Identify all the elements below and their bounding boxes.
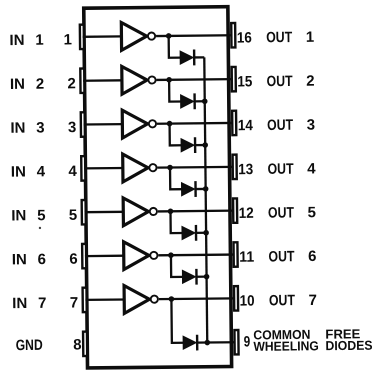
svg-text:1: 1: [35, 32, 44, 49]
wire: inverter U1D output to pin 13: [157, 166, 233, 169]
svg-text:4: 4: [68, 163, 77, 180]
svg-text:15: 15: [237, 73, 252, 90]
wire: output 2 to diode D2 anode: [169, 80, 181, 102]
svg-text:4: 4: [307, 160, 316, 177]
svg-text:OUT: OUT: [267, 117, 293, 134]
svg-text:5: 5: [308, 204, 317, 221]
pin 4 number: [68, 163, 77, 180]
label OUT 3: [267, 116, 315, 134]
svg-text:3: 3: [307, 116, 316, 133]
node: output 3 junction: [167, 121, 173, 127]
inverter U1F (channel 6): [124, 242, 149, 270]
pin 7: [83, 288, 87, 312]
wire: diode D1 cathode to common bus: [194, 56, 204, 58]
svg-text:7: 7: [308, 292, 317, 309]
diode D1: [180, 50, 194, 66]
inverter U1G (channel 7): [124, 285, 149, 313]
label COMMON FREE WHEELING DIODES: [253, 326, 373, 354]
svg-text:OUT: OUT: [268, 204, 294, 221]
inverter U1E output bubble: [150, 208, 157, 215]
inverter U1B output bubble: [148, 76, 155, 83]
pin 8 number: [73, 336, 82, 353]
wire: inverter U1E output to pin 12: [158, 209, 234, 212]
svg-text:14: 14: [238, 117, 254, 134]
wire: diode D3 cathode to common bus: [195, 144, 205, 146]
svg-text:2: 2: [67, 75, 76, 92]
wire: output 3 to diode D3 anode: [170, 123, 182, 145]
svg-text:6: 6: [308, 248, 317, 265]
svg-text:OUT: OUT: [269, 292, 295, 309]
pin 8: [83, 332, 87, 356]
diode D3: [181, 137, 195, 153]
svg-text:IN: IN: [12, 251, 27, 268]
pin 3: [81, 112, 85, 136]
inverter U1A (channel 1): [121, 22, 146, 50]
inverter U1F output bubble: [150, 252, 157, 259]
node: output 7 junction: [169, 296, 175, 302]
pin 1 number: [63, 31, 72, 48]
svg-text:DIODES: DIODES: [325, 338, 372, 353]
wire: output 1 to diode D1 anode: [169, 36, 181, 58]
wire: diode D7 cathode to common bus: [197, 341, 207, 343]
inverter U1D output bubble: [149, 164, 156, 171]
wire: pin 4 input to inverter U1D: [84, 167, 124, 170]
svg-text:1: 1: [306, 29, 315, 46]
svg-text:16: 16: [237, 29, 252, 46]
wire: pin 7 input to inverter U1G: [85, 298, 125, 301]
pin 16: [231, 23, 235, 47]
svg-text:OUT: OUT: [267, 73, 293, 90]
node: output 2 junction: [166, 77, 172, 83]
label IN 7: [12, 295, 46, 312]
wire: output 6 to diode D6 anode: [171, 255, 183, 277]
pin 11 number: [239, 249, 254, 266]
wire: inverter U1B output to pin 15: [157, 78, 233, 81]
node: common bus junction at D5: [203, 230, 209, 236]
pin 9: [234, 330, 238, 354]
label IN 4: [11, 163, 46, 180]
pin 6 number: [69, 251, 78, 268]
svg-text:12: 12: [239, 205, 254, 222]
pin 4: [81, 156, 85, 180]
wire: pin 6 input to inverter U1F: [85, 255, 125, 258]
label IN 5: [11, 207, 45, 224]
wire: diode D4 cathode to common bus: [196, 188, 206, 190]
label IN 3: [10, 119, 44, 136]
svg-text:OUT: OUT: [266, 29, 292, 46]
pin 10 number: [240, 293, 255, 310]
pin 2 number: [67, 75, 76, 92]
svg-text:6: 6: [38, 251, 47, 268]
pin 1: [80, 25, 84, 49]
label IN 2: [10, 76, 44, 93]
node: common bus junction at D3: [202, 142, 208, 148]
wire: output 4 to diode D4 anode: [170, 167, 182, 189]
diode D2: [181, 93, 195, 109]
svg-text:OUT: OUT: [268, 248, 294, 265]
svg-text:OUT: OUT: [267, 161, 293, 178]
label OUT 4: [267, 160, 316, 178]
svg-text:GND: GND: [16, 337, 43, 354]
label OUT 7: [269, 292, 317, 310]
wire: inverter U1C output to pin 14: [157, 122, 233, 125]
pin 3 number: [68, 119, 77, 136]
label OUT 6: [268, 248, 316, 266]
svg-text:IN: IN: [11, 164, 26, 181]
inverter U1G output bubble: [151, 296, 158, 303]
diode D6: [182, 269, 196, 285]
wire: inverter U1A output to pin 16: [156, 34, 232, 37]
pin 6: [82, 244, 86, 268]
svg-text:10: 10: [240, 293, 255, 310]
node: output 1 junction: [166, 33, 172, 39]
pin 7 number: [70, 294, 79, 311]
label IN 6: [12, 251, 46, 268]
wire: output 5 to diode D5 anode: [170, 211, 182, 233]
svg-text:IN: IN: [11, 207, 26, 224]
svg-text:IN: IN: [10, 120, 25, 137]
node: common bus junction at D2: [202, 98, 208, 104]
svg-text:5: 5: [69, 207, 78, 224]
pin 11: [234, 242, 238, 266]
inverter U1B (channel 2): [122, 66, 147, 94]
svg-text:WHEELING: WHEELING: [253, 338, 319, 354]
diode D7: [183, 335, 197, 351]
node: common bus junction at D4: [203, 186, 209, 192]
wire: inverter U1F output to pin 11: [158, 253, 234, 256]
svg-text:3: 3: [36, 119, 45, 136]
pin 5 number: [69, 207, 78, 224]
svg-text:5: 5: [37, 207, 46, 224]
node: output 6 junction: [168, 252, 174, 258]
svg-text:6: 6: [69, 251, 78, 268]
wire: common free-wheeling diode bus: [204, 57, 207, 342]
pin 12 number: [239, 205, 254, 222]
wire: common bus to pin 9: [207, 341, 235, 344]
pin 13: [233, 155, 237, 179]
svg-text:4: 4: [37, 163, 46, 180]
wire: pin 3 input to inverter U1C: [84, 123, 124, 126]
node: common bus junction at D7: [204, 340, 210, 346]
diode D4: [182, 181, 196, 197]
pin 14: [232, 111, 236, 135]
svg-text:7: 7: [70, 294, 79, 311]
inverter U1C (channel 3): [122, 110, 147, 138]
wire: pin 2 input to inverter U1B: [83, 79, 123, 82]
node: common bus junction at D6: [204, 274, 210, 280]
wire: inverter U1G output to pin 10: [159, 297, 235, 300]
pin 16 number: [237, 29, 252, 46]
pin 5: [82, 200, 86, 224]
wire: output 7 to diode D7 anode: [171, 299, 183, 343]
svg-text:IN: IN: [12, 295, 27, 312]
svg-text:2: 2: [36, 76, 45, 93]
wire: pin 1 input to inverter U1A: [83, 35, 123, 38]
node: output 4 junction: [167, 165, 173, 171]
wire: diode D6 cathode to common bus: [196, 275, 206, 277]
svg-text:13: 13: [238, 161, 253, 178]
pin 10: [234, 286, 238, 310]
wire: pin 5 input to inverter U1E: [84, 211, 124, 214]
wire: diode D2 cathode to common bus: [195, 100, 205, 102]
svg-text:3: 3: [68, 119, 77, 136]
svg-text:11: 11: [239, 249, 254, 266]
inverter U1C output bubble: [149, 120, 156, 127]
wire: diode D5 cathode to common bus: [196, 232, 206, 234]
svg-text:IN: IN: [9, 32, 24, 49]
diode D5: [182, 225, 196, 241]
svg-text:9: 9: [244, 333, 251, 350]
pin 13 number: [238, 161, 253, 178]
speck (scan artifact): [39, 227, 41, 229]
label IN 1: [9, 32, 43, 49]
label OUT 1: [266, 29, 314, 47]
label GND: [16, 337, 43, 354]
svg-text:8: 8: [73, 336, 82, 353]
svg-text:7: 7: [38, 295, 47, 312]
pin 9 number: [244, 333, 251, 350]
inverter U1E (channel 5): [123, 198, 148, 226]
label OUT 2: [267, 73, 315, 91]
pin 12: [233, 198, 237, 222]
label OUT 5: [268, 204, 316, 222]
svg-text:IN: IN: [10, 76, 25, 93]
pin 14 number: [238, 117, 254, 134]
node: output 5 junction: [168, 208, 174, 214]
inverter U1D (channel 4): [123, 154, 148, 182]
pin 15: [232, 67, 236, 91]
pin 15 number: [237, 73, 252, 90]
IC package body U1: [84, 7, 232, 368]
svg-text:2: 2: [306, 73, 315, 90]
inverter U1A output bubble: [148, 32, 155, 39]
pin 2: [80, 69, 84, 93]
svg-text:1: 1: [63, 31, 72, 48]
